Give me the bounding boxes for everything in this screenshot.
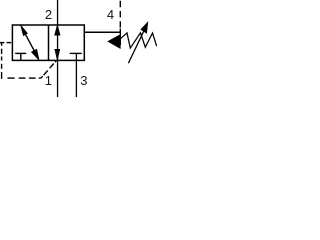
svg-text:2: 2 [45, 7, 52, 22]
svg-text:4: 4 [107, 7, 114, 22]
svg-text:3: 3 [80, 73, 87, 88]
svg-text:1: 1 [45, 73, 52, 88]
